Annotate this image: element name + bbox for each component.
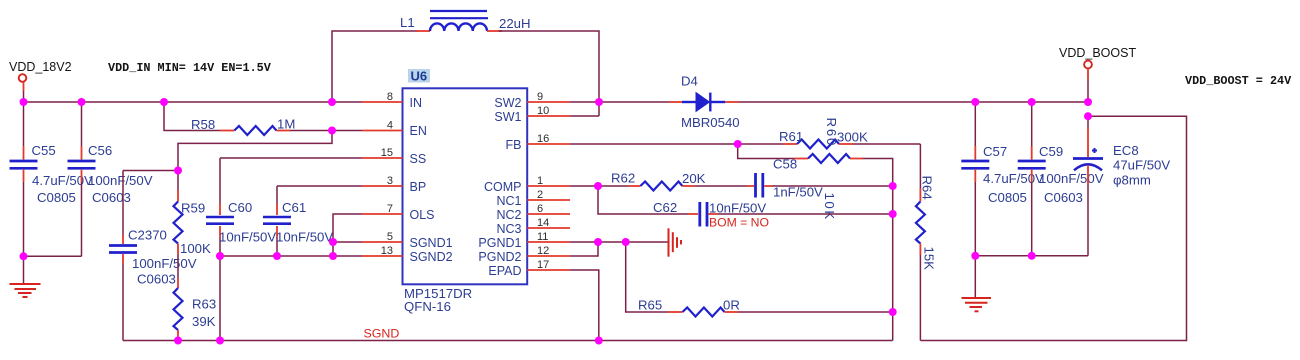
pin 4 EN bbox=[362, 120, 403, 132]
capacitor C57 bbox=[961, 102, 989, 256]
IC U6 MP1517DR body bbox=[403, 88, 528, 284]
svg-text:SW1: SW1 bbox=[494, 110, 521, 124]
svg-text:EC8: EC8 bbox=[1113, 143, 1139, 158]
resistor R60 bbox=[794, 154, 863, 163]
svg-text:VDD_IN MIN= 14V EN=1.5V: VDD_IN MIN= 14V EN=1.5V bbox=[108, 61, 272, 75]
wire EPAD to SGND bbox=[570, 270, 599, 341]
pin 3 BP bbox=[362, 175, 403, 187]
junction C59 bottom bbox=[1028, 252, 1036, 260]
wire COMP elbow to C62 bbox=[598, 186, 688, 214]
svg-text:EN: EN bbox=[410, 124, 427, 138]
wire PGND2 riser bbox=[570, 242, 598, 256]
junction COMP node bbox=[594, 182, 602, 190]
wire SW2 bbox=[570, 101, 599, 103]
svg-text:EPAD: EPAD bbox=[488, 264, 521, 278]
svg-text:10K: 10K bbox=[822, 193, 837, 221]
resistor R63 bbox=[174, 278, 183, 341]
svg-text:R59: R59 bbox=[181, 201, 205, 216]
wire OLS elbow bbox=[333, 214, 362, 256]
svg-text:C60: C60 bbox=[228, 200, 252, 215]
svg-text:9: 9 bbox=[537, 91, 543, 103]
junction EC8 top bbox=[1084, 112, 1092, 120]
svg-text:7: 7 bbox=[387, 203, 393, 215]
junction C59 top bbox=[1028, 98, 1036, 106]
junction R65 node bbox=[889, 308, 897, 316]
inductor L1 bbox=[416, 11, 502, 31]
svg-text:QFN-16: QFN-16 bbox=[404, 299, 451, 314]
svg-text:SW2: SW2 bbox=[494, 96, 521, 110]
svg-text:300K: 300K bbox=[837, 130, 868, 145]
svg-text:R63: R63 bbox=[192, 297, 216, 312]
junction EN/R58 bbox=[328, 127, 336, 135]
junction OLS/SGND1 bbox=[329, 238, 337, 246]
svg-text:C61: C61 bbox=[282, 200, 306, 215]
svg-text:4.7uF/50V: 4.7uF/50V bbox=[983, 171, 1044, 186]
wire to C2370 bbox=[123, 170, 178, 172]
wire EN node down to divider bbox=[178, 131, 332, 171]
junction R63 bottom bbox=[174, 337, 182, 345]
svg-text:10: 10 bbox=[537, 105, 549, 117]
ground under C55 bbox=[10, 256, 41, 297]
pin 7 OLS bbox=[362, 203, 403, 215]
wire BP to C61 bbox=[277, 185, 362, 187]
junction EPAD/SGND bbox=[595, 337, 603, 345]
svg-text:R61: R61 bbox=[779, 129, 803, 144]
svg-text:C59: C59 bbox=[1039, 144, 1063, 159]
wire R65 to node bbox=[738, 311, 893, 313]
wire C62 to node bbox=[718, 213, 893, 215]
svg-text:SGND: SGND bbox=[364, 327, 400, 341]
svg-text:100nF/50V: 100nF/50V bbox=[1039, 171, 1104, 186]
svg-text:100nF/50V: 100nF/50V bbox=[88, 173, 153, 188]
wire R64 loop to VDD_BOOST bbox=[920, 116, 1186, 340]
wire SS to C60 bbox=[220, 157, 362, 159]
wire output caps bottom bbox=[975, 255, 1088, 257]
junction VDD_BOOST node bbox=[1084, 98, 1092, 106]
svg-text:VDD_BOOST = 24V: VDD_BOOST = 24V bbox=[1185, 74, 1292, 88]
junction C55 gnd bbox=[20, 252, 28, 260]
pin 9 SW2 bbox=[527, 91, 570, 103]
wire SW node to D4 bbox=[599, 101, 669, 103]
IC U6 right pin names bbox=[478, 96, 521, 278]
svg-text:BP: BP bbox=[410, 180, 427, 194]
svg-text:VDD_18V2: VDD_18V2 bbox=[9, 60, 72, 74]
wire R60 to node bbox=[863, 159, 893, 341]
wire SGND1 pin bbox=[333, 241, 362, 243]
power port VDD_18V2 bbox=[19, 74, 27, 91]
svg-text:SGND2: SGND2 bbox=[410, 250, 453, 264]
pin 10 SW1 bbox=[527, 105, 570, 117]
svg-text:10nF/50V: 10nF/50V bbox=[219, 230, 276, 245]
wire C58 to node bbox=[772, 185, 893, 187]
svg-text:3: 3 bbox=[387, 175, 393, 187]
junction IN/L1 bbox=[328, 98, 336, 106]
wire SW1 bbox=[570, 115, 599, 117]
wire FB elbow to R60 bbox=[738, 144, 794, 159]
junction C57 top bbox=[971, 98, 979, 106]
junction C56 bbox=[78, 98, 86, 106]
svg-text:20K: 20K bbox=[682, 171, 706, 186]
svg-text:C55: C55 bbox=[32, 143, 56, 158]
junction C57 bottom bbox=[971, 252, 979, 260]
svg-text:39K: 39K bbox=[192, 314, 216, 329]
wire SGND2 line bbox=[220, 255, 362, 257]
svg-text:BOM = NO: BOM = NO bbox=[709, 215, 769, 229]
wire C60 to SGND bbox=[219, 256, 221, 341]
junction VDD_18V2/C55 bbox=[20, 98, 28, 106]
pin 17 EPAD bbox=[527, 259, 570, 271]
capacitor C56 bbox=[68, 102, 96, 256]
svg-text:15: 15 bbox=[381, 147, 393, 159]
svg-text:12: 12 bbox=[537, 245, 549, 257]
svg-text:4: 4 bbox=[387, 120, 393, 132]
svg-text:C57: C57 bbox=[983, 144, 1007, 159]
svg-text:R65: R65 bbox=[638, 298, 662, 313]
capacitor C61 bbox=[263, 186, 291, 256]
ground under C57 bbox=[962, 256, 992, 311]
wire R58 elbow from rail bbox=[164, 102, 220, 131]
svg-text:1: 1 bbox=[537, 175, 543, 187]
svg-text:5: 5 bbox=[387, 231, 393, 243]
junction SGND2/C61 bbox=[273, 252, 281, 260]
svg-text:C62: C62 bbox=[653, 200, 677, 215]
svg-text:OLS: OLS bbox=[410, 208, 435, 222]
wire L1 loop left bbox=[332, 31, 418, 102]
wire D4 to VDD_BOOST bbox=[739, 101, 1088, 103]
svg-text:C0603: C0603 bbox=[1044, 190, 1083, 205]
pin 2 NC1 bbox=[527, 189, 570, 201]
resistor R61 bbox=[783, 140, 853, 149]
pin 13 SGND2 bbox=[362, 245, 403, 257]
svg-text:4.7uF/50V: 4.7uF/50V bbox=[32, 173, 93, 188]
svg-text:C0805: C0805 bbox=[37, 190, 76, 205]
svg-text:C0603: C0603 bbox=[137, 272, 176, 287]
resistor R59 bbox=[174, 171, 183, 279]
svg-text:D4: D4 bbox=[681, 74, 698, 89]
svg-text:2: 2 bbox=[537, 189, 543, 201]
svg-text:14: 14 bbox=[537, 217, 549, 229]
capacitor C2370 bbox=[109, 171, 137, 341]
svg-text:10nF/50V: 10nF/50V bbox=[276, 230, 333, 245]
wire FB bbox=[570, 143, 738, 145]
wire R65 riser bbox=[626, 242, 668, 312]
svg-text:C0805: C0805 bbox=[988, 190, 1027, 205]
svg-text:8: 8 bbox=[387, 91, 393, 103]
svg-text:MBR0540: MBR0540 bbox=[681, 115, 740, 130]
junction C60 bottom bbox=[216, 337, 224, 345]
resistor R65 bbox=[668, 308, 738, 317]
pin 12 PGND2 bbox=[527, 245, 570, 257]
junction SW2 bbox=[595, 98, 603, 106]
junction divider top bbox=[174, 167, 182, 175]
power ground PGND (sideways) bbox=[669, 228, 682, 256]
wire R62 to C58 bbox=[695, 185, 747, 187]
pin 14 NC3 bbox=[527, 217, 570, 229]
pin 6 NC2 bbox=[527, 203, 570, 215]
svg-text:13: 13 bbox=[381, 245, 393, 257]
diode D4 bbox=[669, 93, 739, 112]
junction C62 node bbox=[889, 210, 897, 218]
wire VDD_BOOST drop bbox=[1087, 79, 1089, 102]
power port VDD_BOOST bbox=[1084, 61, 1092, 79]
svg-text:16: 16 bbox=[537, 133, 549, 145]
svg-text:FB: FB bbox=[506, 138, 522, 152]
svg-text:11: 11 bbox=[537, 231, 548, 243]
svg-text:PGND2: PGND2 bbox=[478, 250, 521, 264]
wire R61 to R64 bbox=[853, 143, 920, 145]
svg-text:SS: SS bbox=[410, 152, 427, 166]
capacitor C59 bbox=[1018, 102, 1046, 256]
wire C55-C56 bottom bbox=[24, 255, 82, 257]
svg-text:R62: R62 bbox=[611, 171, 635, 186]
resistor R58 bbox=[220, 126, 290, 135]
resistor R62 bbox=[628, 182, 695, 191]
wire R58 to EN pin bbox=[290, 130, 362, 132]
svg-text:R60: R60 bbox=[824, 118, 839, 148]
IC U6 left pin names bbox=[410, 96, 453, 264]
svg-text:C58: C58 bbox=[773, 157, 797, 172]
svg-text:6: 6 bbox=[537, 203, 543, 215]
capacitor C58 bbox=[747, 173, 772, 198]
svg-text:COMP: COMP bbox=[484, 180, 522, 194]
svg-text:NC1: NC1 bbox=[496, 194, 521, 208]
capacitor C55 bbox=[10, 102, 38, 256]
svg-text:NC3: NC3 bbox=[496, 222, 521, 236]
capacitor C62 bbox=[688, 202, 718, 227]
svg-text:L1: L1 bbox=[400, 15, 415, 30]
svg-text:VDD_BOOST: VDD_BOOST bbox=[1059, 46, 1136, 60]
resistor R64 bbox=[916, 144, 925, 341]
wire FB to R61 bbox=[738, 143, 783, 145]
pin 16 FB bbox=[527, 133, 570, 145]
svg-text:PGND1: PGND1 bbox=[478, 236, 521, 250]
junction SGND2/C60 bbox=[216, 252, 224, 260]
svg-text:100K: 100K bbox=[180, 241, 211, 256]
pin 15 SS bbox=[362, 147, 403, 159]
svg-text:100nF/50V: 100nF/50V bbox=[132, 256, 197, 271]
svg-text:IN: IN bbox=[410, 96, 423, 110]
pin 8 IN bbox=[362, 91, 403, 103]
svg-text:C0603: C0603 bbox=[92, 190, 131, 205]
wire L1 loop right bbox=[499, 31, 599, 116]
wire COMP bbox=[570, 185, 628, 187]
svg-text:U6: U6 bbox=[411, 69, 428, 84]
junction C58 node bbox=[889, 182, 897, 190]
capacitor C60 bbox=[206, 158, 234, 256]
svg-text:φ8mm: φ8mm bbox=[1113, 173, 1151, 188]
pin 11 PGND1 bbox=[527, 231, 570, 243]
svg-text:NC2: NC2 bbox=[496, 208, 521, 222]
electrolytic capacitor EC8 bbox=[1073, 116, 1103, 256]
junction PGND/R65 bbox=[622, 238, 630, 246]
wire PGND1 to ground bbox=[570, 241, 668, 243]
junction PGND1/PGND2 bbox=[594, 238, 602, 246]
svg-text:22uH: 22uH bbox=[499, 16, 531, 31]
IC U6 reference highlight bbox=[408, 69, 430, 84]
svg-text:C2370: C2370 bbox=[128, 228, 167, 243]
svg-text:17: 17 bbox=[537, 259, 549, 271]
pin 5 SGND1 bbox=[362, 231, 403, 243]
svg-text:1M: 1M bbox=[277, 117, 295, 132]
svg-text:R58: R58 bbox=[191, 117, 215, 132]
svg-text:47uF/50V: 47uF/50V bbox=[1113, 158, 1170, 173]
junction FB node bbox=[734, 140, 742, 148]
svg-text:0R: 0R bbox=[723, 298, 740, 313]
svg-text:15K: 15K bbox=[922, 247, 937, 271]
wire SGND bottom bbox=[123, 340, 893, 342]
svg-text:SGND1: SGND1 bbox=[410, 236, 453, 250]
wire VDD_18V2 rail bbox=[23, 91, 362, 102]
junction R58 tap bbox=[160, 98, 168, 106]
svg-text:C56: C56 bbox=[88, 143, 112, 158]
pin 1 COMP bbox=[527, 175, 570, 187]
svg-text:R64: R64 bbox=[920, 176, 935, 200]
junction SGND1/SGND2 bbox=[329, 252, 337, 260]
